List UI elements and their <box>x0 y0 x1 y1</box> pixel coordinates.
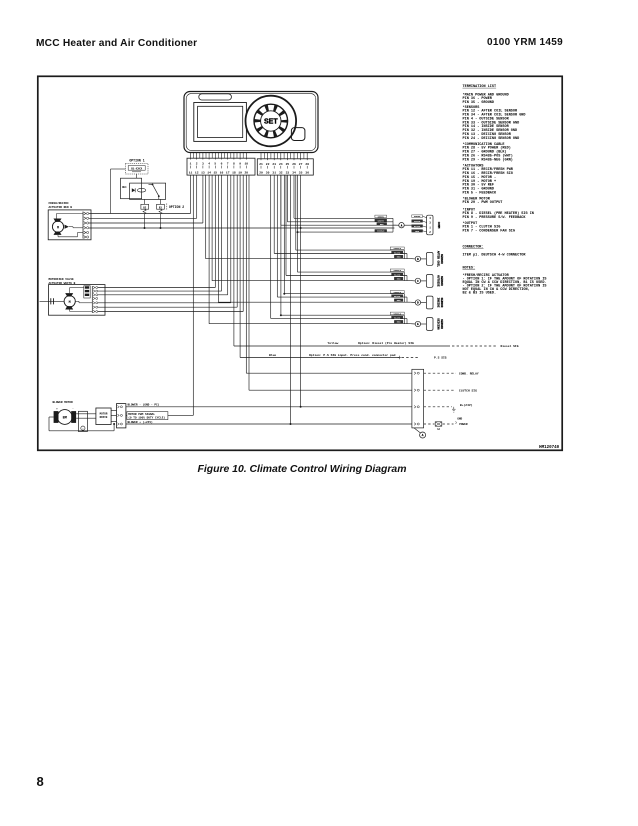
svg-text:B1-XXXX: B1-XXXX <box>131 167 142 170</box>
svg-text:SENSOR: SENSOR <box>440 254 443 264</box>
actuator M2 (motorized valve) <box>49 285 106 316</box>
svg-text:13: 13 <box>201 171 205 174</box>
svg-text:1A: 1A <box>437 428 440 431</box>
comm wire labels (left) <box>375 215 387 233</box>
wires motor to drive <box>76 414 96 418</box>
svg-text:1: 1 <box>429 226 431 229</box>
wire actuator M2 pin7 to J1 <box>98 311 244 313</box>
wire actuator M2 pin5 to J1 <box>98 302 231 304</box>
controller top slot <box>199 94 232 100</box>
sensor Inside Sensor connector <box>426 296 433 309</box>
svg-text:WHITE: WHITE <box>414 220 421 223</box>
svg-text:INSIDE: INSIDE <box>436 298 439 308</box>
svg-text:DH4: DH4 <box>122 186 127 189</box>
svg-text:BLOWER + (+24V): BLOWER + (+24V) <box>128 420 153 424</box>
sensor Deicing Sensor connector <box>426 318 433 331</box>
svg-text:25: 25 <box>286 163 290 166</box>
communication cable wires <box>281 218 397 233</box>
svg-text:6: 6 <box>221 163 223 166</box>
actuator M2 internal wires <box>70 288 93 312</box>
svg-text:POWER: POWER <box>459 423 468 426</box>
svg-text:GREEN: GREEN <box>414 215 421 218</box>
svg-text:Option: P.S SIG input. Press c: Option: P.S SIG input. Press cond. conne… <box>309 353 396 357</box>
connector block J2 (pins 21-36) <box>257 153 313 176</box>
svg-text:31: 31 <box>272 172 276 175</box>
blower PWM wire <box>126 414 193 416</box>
svg-text:BLACK: BLACK <box>394 251 401 254</box>
svg-text:SHIELD: SHIELD <box>377 230 385 233</box>
sensor Outside Sensor wire labels <box>390 269 404 281</box>
svg-text:BLACK: BLACK <box>394 295 401 298</box>
svg-text:SHIELD: SHIELD <box>393 312 401 315</box>
svg-text:+: + <box>56 407 58 410</box>
blower motor BM <box>54 407 77 424</box>
svg-text:5: 5 <box>214 163 216 166</box>
sensor Outside Sensor wires <box>212 272 415 281</box>
sensor Deicing Sensor splice node E <box>415 321 426 326</box>
svg-text:28: 28 <box>305 163 309 166</box>
wire relay to B3 <box>160 199 162 204</box>
svg-text:33: 33 <box>286 172 290 175</box>
junction GND bus <box>290 423 292 425</box>
svg-text:7: 7 <box>227 163 229 166</box>
svg-text:36: 36 <box>305 172 309 175</box>
svg-text:M: M <box>57 226 59 230</box>
svg-text:HM120740: HM120740 <box>539 446 560 450</box>
sensor Outside Sensor label <box>436 275 442 287</box>
sensor Deicing Sensor wire labels <box>390 312 404 324</box>
wires drive to blower connector <box>111 411 116 422</box>
controller SET knob <box>245 96 296 147</box>
svg-text:BM: BM <box>63 417 67 421</box>
svg-text:17: 17 <box>226 171 230 174</box>
svg-text:4: 4 <box>208 163 210 166</box>
controller U1 (climate control head unit) <box>184 92 318 153</box>
svg-text:14: 14 <box>207 171 211 174</box>
svg-text:MOTOR: MOTOR <box>100 413 108 416</box>
svg-text:10: 10 <box>244 163 248 166</box>
sensor Deicing Sensor label <box>436 318 442 330</box>
controller button <box>291 128 305 141</box>
wire cond relay output <box>424 373 479 376</box>
svg-text:2: 2 <box>429 231 431 234</box>
wire actuator M1 pin2 to J1 <box>89 217 197 219</box>
svg-text:OPTION 2: OPTION 2 <box>169 205 184 209</box>
vehicle connector P1 (dashed) <box>412 369 424 428</box>
svg-text:29: 29 <box>259 172 263 175</box>
sensor Inside Sensor splice node D <box>415 300 426 305</box>
wire actuator M2 pin2 to J1 <box>98 290 222 292</box>
wire relay to B2 <box>144 199 146 204</box>
wire actuator M1 pin4 ground bus (long) <box>89 227 395 229</box>
resistor B2 <box>141 204 149 214</box>
svg-text:SHIELD: SHIELD <box>393 269 401 272</box>
svg-text:3: 3 <box>202 163 204 166</box>
svg-text:SENSOR: SENSOR <box>440 276 443 286</box>
wire actuator M2 pin1 to J1 <box>98 287 216 289</box>
motor drive module <box>96 408 111 425</box>
svg-text:23: 23 <box>272 163 276 166</box>
svg-text:24: 24 <box>279 163 283 166</box>
vehicle connector node A <box>414 428 426 438</box>
wire Yellow diesel option <box>234 341 519 348</box>
svg-text:SENSOR: SENSOR <box>440 298 443 308</box>
svg-text:Blue: Blue <box>269 353 276 357</box>
svg-text:BLACK: BLACK <box>414 225 421 228</box>
svg-text:P.S SIG: P.S SIG <box>434 357 447 360</box>
svg-text:PIN 29 - RS485-NEG (GRN): PIN 29 - RS485-NEG (GRN) <box>463 157 513 162</box>
sensor Inside Sensor label <box>436 298 442 308</box>
svg-text:SHIELD: SHIELD <box>393 291 401 294</box>
wire bundle from J1 (vertical drops) <box>191 175 250 415</box>
svg-text:MOTORIZED VALVE: MOTORIZED VALVE <box>49 278 74 281</box>
svg-text:15: 15 <box>213 171 217 174</box>
sensor Outside Sensor splice node C <box>415 278 426 283</box>
svg-text:26: 26 <box>292 163 296 166</box>
relay B1 (B1-XXXX, dashed option box) <box>125 163 148 174</box>
actuator M1 internal wires <box>57 214 84 237</box>
junction B+ bus <box>300 406 302 408</box>
wire clutch sig output <box>424 390 478 393</box>
wire actuator M2 pin3 to J1 <box>98 294 228 296</box>
svg-text:B2 & B3 IS USED.: B2 & B3 IS USED. <box>463 292 497 296</box>
comm connector wire labels (right) <box>412 215 423 233</box>
relay K1 inner box <box>130 183 166 199</box>
svg-text:PIN 35 - GROUND: PIN 35 - GROUND <box>463 101 495 105</box>
svg-text:9: 9 <box>239 163 241 166</box>
junction sensor shield E <box>280 314 282 316</box>
svg-text:PIN 7 - CONDENSER FAN SIG: PIN 7 - CONDENSER FAN SIG <box>463 230 516 234</box>
svg-text:AFTER COIL: AFTER COIL <box>436 251 439 268</box>
svg-text:GREEN: GREEN <box>378 215 385 218</box>
svg-text:TERMINATION LIST: TERMINATION LIST <box>463 85 497 89</box>
wire B2 to ground bus <box>144 214 146 229</box>
actuator M1 pin strip <box>83 212 89 239</box>
relay K1 box <box>121 178 142 199</box>
sensor Outside Sensor connector <box>426 275 433 288</box>
blower PWM label box <box>127 412 168 420</box>
sensor After Coil Sensor wire labels <box>390 247 404 259</box>
svg-text:PIN 24 - DEICING SENSOR GND: PIN 24 - DEICING SENSOR GND <box>463 137 520 141</box>
svg-text:GND: GND <box>457 417 462 420</box>
svg-text:M: M <box>69 301 71 305</box>
blower connector J3 <box>117 404 126 428</box>
svg-text:BLOWER MOTOR: BLOWER MOTOR <box>53 401 73 404</box>
svg-text:19: 19 <box>238 171 242 174</box>
relay coil (oval) <box>137 188 145 192</box>
sensor Deicing Sensor wires <box>209 315 415 324</box>
svg-text:3: 3 <box>429 222 431 225</box>
diode D1 <box>132 188 135 192</box>
svg-text:16: 16 <box>220 171 224 174</box>
option 2 label <box>167 203 184 210</box>
actuator M2 pin strip <box>92 286 97 313</box>
svg-text:21: 21 <box>259 163 263 166</box>
svg-text:12: 12 <box>195 171 199 174</box>
actuator M1 (fresh/recirc) <box>48 210 91 240</box>
svg-text:SENSOR: SENSOR <box>440 319 443 329</box>
svg-text:COMM: COMM <box>437 222 440 229</box>
wire option1 to actuator feed <box>111 169 126 214</box>
svg-text:CLUTCH SIG: CLUTCH SIG <box>459 390 477 393</box>
controller LCD display <box>194 103 247 142</box>
svg-text:Option: Diesel (Pre Heater) SI: Option: Diesel (Pre Heater) SIG <box>358 341 414 345</box>
svg-text:22: 22 <box>266 163 270 166</box>
svg-text:FRESH/RECIRC: FRESH/RECIRC <box>49 201 69 205</box>
svg-text:4: 4 <box>429 217 431 220</box>
svg-text:DRIVE: DRIVE <box>100 416 108 419</box>
wire bundle from J2 (vertical drops) <box>271 175 301 424</box>
sensor After Coil Sensor wires <box>206 250 416 259</box>
wire B+ 24V output <box>424 403 473 412</box>
wire Blue pressure switch option <box>240 353 447 360</box>
diagram frame <box>38 76 562 450</box>
blower capacitor box A1 <box>78 411 87 431</box>
actuator M2 label (MOTORIZED VALVE ACTUATOR WHITE B) <box>49 278 76 285</box>
svg-text:Yellow: Yellow <box>328 341 339 345</box>
actuator M2 resistor pack <box>84 286 90 298</box>
wire actuator M2 pin6 to J1 <box>98 306 238 308</box>
svg-text:NOTES:: NOTES: <box>463 267 476 271</box>
actuator M1 label (FRESH/RECIRC ACTUATOR RED B) <box>49 201 73 209</box>
svg-text:PIN 5 - FEEDBACK: PIN 5 - FEEDBACK <box>463 192 498 196</box>
sensor Inside Sensor wire labels <box>390 291 404 303</box>
svg-text:1: 1 <box>190 163 192 166</box>
svg-text:BLACK: BLACK <box>394 273 401 276</box>
connector block J1 (pins 1-20) <box>187 153 255 176</box>
svg-text:35: 35 <box>299 172 303 175</box>
svg-text:SHIELD: SHIELD <box>393 247 401 250</box>
svg-text:-: - <box>72 407 74 410</box>
sensor Inside Sensor wires <box>219 294 416 303</box>
wire to cond relay pin <box>246 372 412 374</box>
wire B1 to relay box <box>136 174 138 178</box>
blower minus wire to vehicle <box>126 406 412 408</box>
device wire stubs <box>194 153 304 159</box>
svg-text:SET: SET <box>264 119 278 126</box>
svg-text:32: 32 <box>279 172 283 175</box>
valve symbol <box>40 298 65 304</box>
svg-text:20: 20 <box>244 171 248 174</box>
svg-text:OPTION 1: OPTION 1 <box>129 159 144 163</box>
svg-text:DEICING: DEICING <box>436 318 439 330</box>
svg-text:B2: B2 <box>143 206 147 209</box>
svg-text:B+(24V): B+(24V) <box>460 403 473 407</box>
wire B3 to ground bus <box>160 214 162 229</box>
svg-text:B3: B3 <box>159 206 163 209</box>
blower plus wire to vehicle <box>126 423 412 425</box>
junction sensor shield D <box>283 293 285 295</box>
svg-text:ACTUATOR RED B: ACTUATOR RED B <box>49 206 73 209</box>
svg-text:Diesel SIG: Diesel SIG <box>501 344 519 348</box>
svg-text:34: 34 <box>292 172 296 175</box>
svg-text:PIN 20 - PWM OUTPUT: PIN 20 - PWM OUTPUT <box>463 201 503 205</box>
svg-text:11: 11 <box>189 171 193 174</box>
wire to clutch sig pin <box>249 389 412 391</box>
sensor After Coil Sensor connector <box>426 253 433 266</box>
svg-text:30: 30 <box>266 172 270 175</box>
resistor B3 <box>157 204 165 214</box>
svg-text:PIN 9 - PRESSURE S/W. FEEDBAC: PIN 9 - PRESSURE S/W. FEEDBACK <box>463 215 527 220</box>
wire actuator M1 pin3 to J1 <box>89 222 203 224</box>
svg-text:2: 2 <box>196 163 198 166</box>
relay switch contact <box>149 184 160 200</box>
svg-text:OUTSIDE: OUTSIDE <box>436 275 439 287</box>
svg-text:ITEM p1. DEUTSCH 4-W CONNECTOR: ITEM p1. DEUTSCH 4-W CONNECTOR <box>463 253 527 257</box>
comm splice node A <box>399 223 412 228</box>
svg-text:BLOWER - (GND - PC): BLOWER - (GND - PC) <box>128 403 160 407</box>
wire actuator M1 pin1 to J1 <box>89 213 191 215</box>
svg-text:(0 TO 100% DUTY CYCLE): (0 TO 100% DUTY CYCLE) <box>128 416 165 420</box>
svg-text:CONNECTOR:: CONNECTOR: <box>463 246 484 250</box>
svg-text:MOTOR PWM SIGNAL: MOTOR PWM SIGNAL <box>128 413 155 416</box>
sensor After Coil Sensor splice node B <box>415 256 426 261</box>
comm wire merge <box>390 218 399 232</box>
comm connector (4-way) <box>423 215 434 235</box>
svg-text:27: 27 <box>299 163 303 166</box>
svg-text:BLACK: BLACK <box>394 317 401 320</box>
termination list legend <box>463 85 547 296</box>
fuse F1 with GND/POWER output <box>424 417 468 430</box>
blower ground loop wire <box>49 417 115 431</box>
sensor After Coil Sensor label <box>436 251 442 268</box>
svg-text:18: 18 <box>232 171 236 174</box>
svg-text:8: 8 <box>233 163 235 166</box>
svg-text:COND. RELAY: COND. RELAY <box>459 373 479 376</box>
